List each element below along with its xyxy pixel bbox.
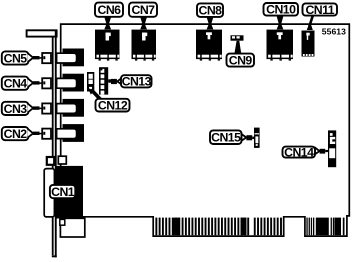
svg-text:CN2: CN2: [4, 127, 28, 141]
pin header CN12: [87, 72, 94, 92]
connector CN11 body: [302, 31, 315, 57]
label CN8: [197, 3, 223, 29]
ISA edge connector gold fingers (left section): [155, 218, 157, 236]
svg-text:CN7: CN7: [132, 3, 156, 17]
PCB board outline with ISA edge-connector notch: [61, 24, 350, 236]
CN1 below-board solder tail block: [60, 218, 85, 237]
connector CN6 body: [95, 30, 120, 61]
label CN1: [50, 185, 75, 198]
bracket port square for CN5: [42, 53, 51, 63]
label CN12: [88, 88, 130, 113]
svg-text:CN14: CN14: [284, 146, 314, 160]
leader arrow from CN2 label: [33, 132, 42, 135]
label CN7: [129, 3, 157, 30]
board edge notch block: [58, 156, 66, 164]
svg-text:55613: 55613: [322, 26, 346, 36]
label CN13: [111, 75, 152, 89]
label CN14: [283, 146, 329, 160]
bracket inner vertical line: [52, 37, 54, 255]
phono jack housing for CN3: [57, 99, 84, 117]
label CN10: [264, 3, 299, 30]
svg-text:CN9: CN9: [229, 54, 253, 68]
label CN15: [210, 130, 254, 144]
phono jack housing for CN5: [57, 49, 84, 67]
connector CN10 body: [267, 30, 294, 61]
leader arrow from CN3 label: [33, 106, 42, 109]
connector CN8 body: [196, 30, 222, 61]
label CN5: [2, 51, 33, 65]
label CN3: [2, 102, 33, 116]
svg-text:CN12: CN12: [98, 99, 128, 113]
svg-text:CN8: CN8: [199, 4, 223, 18]
leader arrow from CN4 label: [33, 81, 42, 84]
jumper CN14: [328, 130, 336, 167]
svg-text:CN10: CN10: [266, 3, 296, 17]
bracket top tab: [27, 30, 57, 36]
label CN11: [303, 3, 338, 30]
bracket screw tab: [47, 157, 54, 165]
jumper CN15: [254, 128, 260, 148]
connector CN7 body: [132, 30, 157, 61]
label CN2: [2, 127, 33, 141]
CN1 D-sub shell through bracket: [44, 169, 54, 217]
CN1 connector body: [56, 166, 84, 219]
svg-text:CN4: CN4: [4, 77, 28, 91]
svg-text:CN11: CN11: [305, 3, 334, 17]
label CN6: [95, 3, 123, 30]
bracket port square for CN2: [42, 129, 51, 139]
svg-text:CN6: CN6: [98, 3, 122, 17]
label CN9: [227, 41, 255, 68]
bracket port square for CN4: [42, 78, 51, 88]
svg-text:CN13: CN13: [122, 75, 152, 89]
phono jack housing for CN4: [57, 74, 84, 92]
jumper CN9: [231, 35, 244, 40]
svg-text:CN1: CN1: [51, 185, 75, 199]
bracket outer vertical line: [55, 30, 57, 257]
bracket port square for CN3: [42, 103, 51, 113]
svg-text:CN3: CN3: [4, 102, 28, 116]
pin header CN13: [99, 67, 111, 94]
bracket bottom joint: [52, 255, 57, 257]
leader arrow from CN5 label: [33, 56, 42, 59]
svg-text:CN15: CN15: [211, 131, 241, 145]
label CN4: [2, 77, 33, 91]
svg-text:CN5: CN5: [4, 51, 28, 65]
ISA edge connector gold fingers (right section): [306, 218, 307, 236]
phono jack housing for CN2: [57, 124, 84, 142]
